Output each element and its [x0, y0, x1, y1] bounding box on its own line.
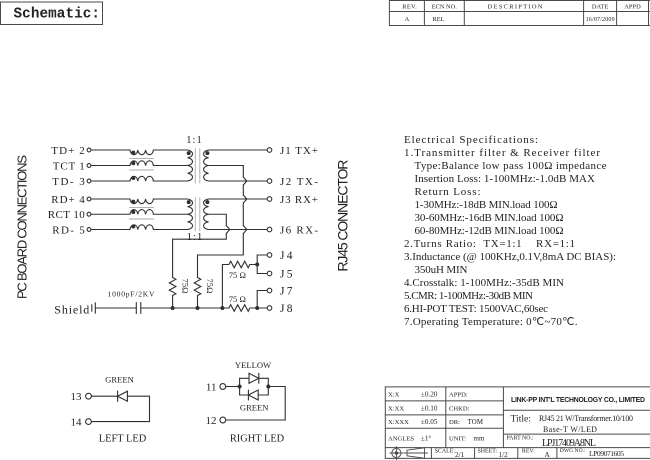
projection symbol cone — [404, 448, 428, 458]
bottom row labels — [435, 448, 586, 455]
svg-text:5.CMR: 1-100MHz:-30dB MIN: 5.CMR: 1-100MHz:-30dB MIN — [404, 290, 533, 302]
svg-text:2/1: 2/1 — [455, 451, 465, 459]
svg-text:12: 12 — [206, 415, 217, 427]
svg-text:60-80MHz:-12dB MIN.load 100Ω: 60-80MHz:-12dB MIN.load 100Ω — [415, 225, 564, 237]
svg-text:75 Ω: 75 Ω — [229, 270, 246, 280]
wire T2 secondary bottom to J6 — [209, 229, 267, 231]
svg-text:LEFT LED: LEFT LED — [99, 433, 147, 444]
svg-text:SCALE:: SCALE: — [435, 449, 456, 455]
svg-text:RIGHT LED: RIGHT LED — [230, 433, 285, 444]
svg-text:J5: J5 — [280, 268, 293, 280]
svg-text:J3 RX+: J3 RX+ — [280, 194, 318, 206]
title block tolerance texts — [388, 390, 485, 442]
svg-text:CHKD:: CHKD: — [449, 405, 470, 412]
wire shield to capacitor — [95, 307, 136, 309]
LED D1 green left — [118, 391, 128, 401]
resistor R1 75ohm vertical — [169, 278, 176, 309]
svg-text:J2 TX-: J2 TX- — [280, 176, 318, 188]
wire LED pair left branch — [239, 378, 241, 395]
wire choke L2 to T2 row6 — [153, 229, 187, 231]
svg-text:DR:: DR: — [449, 419, 460, 426]
svg-text:DATE: DATE — [592, 3, 609, 10]
LED D3 green right — [248, 390, 258, 400]
projection symbol target — [390, 446, 403, 459]
wire T1 secondary top to J1 — [209, 149, 267, 151]
transformer T2 core — [195, 198, 200, 232]
wire bottom branch right — [258, 394, 268, 396]
wire pin11 to LED pair — [226, 385, 242, 389]
svg-text:350uH MIN: 350uH MIN — [415, 264, 468, 276]
svg-text:30-60MHz:-16dB MIN.load 100Ω: 30-60MHz:-16dB MIN.load 100Ω — [415, 212, 564, 224]
svg-text:±0.10: ±0.10 — [421, 404, 438, 412]
svg-text:mm: mm — [474, 434, 485, 442]
transformer T1 core — [195, 149, 200, 184]
svg-text:PC BOARD CONNECTIONS: PC BOARD CONNECTIONS — [14, 155, 29, 299]
wire LED pair right branch — [266, 378, 270, 395]
wire shield rail — [141, 306, 229, 310]
transformer T2 secondary — [204, 199, 210, 230]
wire LED pair to pin12 — [226, 387, 285, 421]
svg-text:X:X: X:X — [388, 391, 400, 398]
pin 4 RD+ — [87, 197, 130, 201]
J labels right — [280, 145, 318, 315]
pin 2 TD+ — [87, 148, 130, 152]
svg-text:7.Operating Temperature: 0℃~70: 7.Operating Temperature: 0℃~70℃. — [404, 316, 578, 328]
wire J7 J8 bracket — [255, 291, 267, 311]
svg-text:TD+ 2: TD+ 2 — [51, 145, 85, 157]
choke L1 core — [130, 159, 154, 170]
wire choke L1 to T1 row2 — [153, 165, 187, 167]
svg-text:Insertion Loss: 1-100MHz:-1.0d: Insertion Loss: 1-100MHz:-1.0dB MAX — [415, 173, 596, 185]
svg-text:REV:: REV: — [522, 449, 535, 455]
svg-text:Schematic:: Schematic: — [14, 7, 101, 23]
svg-text:RD+ 4: RD+ 4 — [51, 194, 85, 206]
node J8 — [267, 306, 272, 311]
transformer T2 primary — [187, 199, 193, 230]
pin 5 RD- — [87, 228, 130, 232]
shield terminal — [92, 303, 96, 313]
wire D1 to pin14 — [92, 396, 150, 421]
svg-text:RD- 5: RD- 5 — [52, 224, 85, 236]
wire T2 center tap — [173, 214, 230, 277]
resistor R2 75ohm vertical — [194, 278, 201, 309]
pin 1 TCT — [87, 164, 130, 168]
LED D2 yellow — [249, 373, 259, 383]
svg-text:Return Loss:: Return Loss: — [415, 186, 481, 198]
svg-text:Base-T W/LED: Base-T W/LED — [543, 425, 597, 434]
wire bottom branch left — [240, 394, 249, 396]
svg-text:J4: J4 — [280, 250, 293, 262]
pin 10 RCT — [87, 212, 130, 216]
svg-text:REL: REL — [433, 16, 445, 23]
svg-text:1-30MHz:-18dB MIN.load 100Ω: 1-30MHz:-18dB MIN.load 100Ω — [415, 199, 558, 211]
svg-text:13: 13 — [71, 391, 83, 403]
wire choke L2 to T2 row5 — [153, 213, 187, 215]
svg-text:GREEN: GREEN — [105, 374, 134, 384]
revision table — [389, 1, 650, 26]
node J7 — [267, 288, 272, 293]
transformer T1 secondary — [204, 150, 210, 181]
svg-text:±1°: ±1° — [421, 434, 432, 442]
transformer T1 primary — [187, 150, 193, 181]
choke L1 winding c — [130, 176, 153, 181]
svg-text:X:XX: X:XX — [388, 405, 404, 412]
revision table header texts — [402, 3, 641, 23]
wire J4 J5 bracket — [255, 255, 267, 274]
svg-text:75Ω: 75Ω — [205, 279, 215, 294]
node pin 14 — [86, 419, 92, 425]
svg-text:Type:Balance low pass 100Ω imp: Type:Balance low pass 100Ω impedance — [415, 160, 607, 172]
svg-text:ECN NO.: ECN NO. — [432, 3, 457, 10]
electrical specifications text — [404, 134, 616, 328]
svg-text:PART NO.:: PART NO.: — [507, 435, 535, 441]
svg-text:J6 RX-: J6 RX- — [280, 224, 318, 236]
svg-text:J8: J8 — [280, 303, 293, 315]
svg-text:TCT 1: TCT 1 — [53, 160, 85, 172]
svg-text:REV.: REV. — [402, 3, 417, 10]
svg-text:GREEN: GREEN — [240, 403, 269, 413]
svg-text:75 Ω: 75 Ω — [229, 294, 246, 304]
choke L2 winding b — [130, 210, 153, 215]
svg-text:J7: J7 — [280, 285, 293, 297]
wire choke L1 to T1 row3 — [153, 180, 187, 182]
node J1 — [267, 148, 272, 153]
choke L1 winding a — [130, 150, 153, 155]
svg-text:APPD: APPD — [624, 3, 641, 10]
svg-text:3.Inductance (@ 100KHz,0.1V,8m: 3.Inductance (@ 100KHz,0.1V,8mA DC BIAS)… — [404, 251, 616, 263]
node J4 — [267, 253, 272, 258]
node pin 12 — [220, 417, 226, 423]
svg-text:11: 11 — [206, 381, 217, 393]
svg-text:UNIT:: UNIT: — [449, 435, 466, 442]
svg-text:DESCRIPTION: DESCRIPTION — [488, 3, 543, 10]
node J5 — [267, 271, 272, 276]
svg-text:2.Turns Ratio: TX=1:1 RX=1: 2.Turns Ratio: TX=1:1 RX=1:1 — [404, 238, 575, 250]
svg-text:75Ω: 75Ω — [181, 279, 191, 294]
svg-text:1/2: 1/2 — [499, 451, 509, 459]
wire pin13 to D1 — [92, 395, 118, 397]
bottom row values — [455, 449, 624, 459]
svg-text:16/07/2009: 16/07/2009 — [586, 17, 615, 23]
svg-text:J1 TX+: J1 TX+ — [280, 145, 318, 157]
node J2 — [267, 179, 272, 184]
capacitor C1 1000pF/2KV — [136, 303, 141, 314]
wire choke L1 to T1 row1 — [153, 149, 187, 151]
svg-text:Shield: Shield — [54, 303, 89, 317]
svg-text:1000pF/2KV: 1000pF/2KV — [108, 290, 156, 299]
svg-text:±0.05: ±0.05 — [421, 418, 438, 426]
svg-text:1:1: 1:1 — [186, 135, 202, 146]
svg-text:Title:: Title: — [511, 414, 531, 425]
svg-text:ANGLES: ANGLES — [388, 435, 414, 442]
svg-text:±0.20: ±0.20 — [421, 390, 438, 398]
choke L1 winding b — [130, 161, 153, 166]
svg-text:LP09071605: LP09071605 — [589, 449, 624, 458]
svg-text:4.Crosstalk: 1-100MHz:-35dB MI: 4.Crosstalk: 1-100MHz:-35dB MIN — [404, 277, 564, 289]
wire T2 secondary top to J3 — [209, 198, 267, 200]
node pin 13 — [86, 393, 92, 399]
svg-text:SHEET:: SHEET: — [478, 449, 498, 455]
resistor R4 75ohm horizontal J7/J8 on rail — [229, 305, 257, 312]
svg-text:RJ45 21 W/Transformer.10/100: RJ45 21 W/Transformer.10/100 — [539, 414, 633, 423]
wire T1 center tap — [198, 166, 247, 278]
pin 3 TD- — [87, 179, 130, 183]
svg-text:Electrical Specifications:: Electrical Specifications: — [404, 134, 538, 146]
wire top branch right — [259, 377, 269, 379]
pin labels left — [48, 145, 86, 237]
svg-text:RJ45 CONNECTOR: RJ45 CONNECTOR — [334, 160, 350, 272]
svg-text:RCT 10: RCT 10 — [48, 209, 86, 221]
svg-text:TOM: TOM — [468, 418, 484, 426]
svg-text:X:XXX: X:XXX — [388, 419, 409, 426]
svg-text:DWG NO.:: DWG NO.: — [560, 448, 586, 454]
wire top branch left — [240, 377, 249, 379]
svg-text:A: A — [405, 16, 410, 23]
title block frame — [385, 387, 650, 459]
node J6 — [267, 227, 272, 232]
svg-text:1.Transmitter filter & Receive: 1.Transmitter filter & Receiver filter — [404, 147, 600, 159]
svg-text:YELLOW: YELLOW — [235, 360, 272, 370]
svg-text:6.HI-POT TEST: 1500VAC,60sec: 6.HI-POT TEST: 1500VAC,60sec — [404, 303, 548, 315]
node pin 11 — [220, 384, 226, 390]
svg-text:14: 14 — [71, 416, 83, 428]
choke L2 winding a — [130, 199, 153, 204]
node J3 — [267, 197, 272, 202]
svg-text:APPD:: APPD: — [449, 391, 468, 398]
svg-text:1:1: 1:1 — [187, 232, 203, 243]
choke L2 winding c — [130, 225, 153, 230]
choke L2 core — [130, 208, 154, 219]
schematic title box — [1, 2, 103, 25]
resistor R3 75ohm horizontal J4/J5 — [222, 261, 257, 308]
svg-text:LINK-PP INT'L TECHNOLOGY CO.,: LINK-PP INT'L TECHNOLOGY CO., LIMITED — [511, 397, 645, 404]
wire choke L2 to T2 row4 — [153, 198, 187, 200]
wire T1 secondary bottom to J2 — [209, 180, 267, 182]
svg-text:A: A — [545, 451, 551, 459]
